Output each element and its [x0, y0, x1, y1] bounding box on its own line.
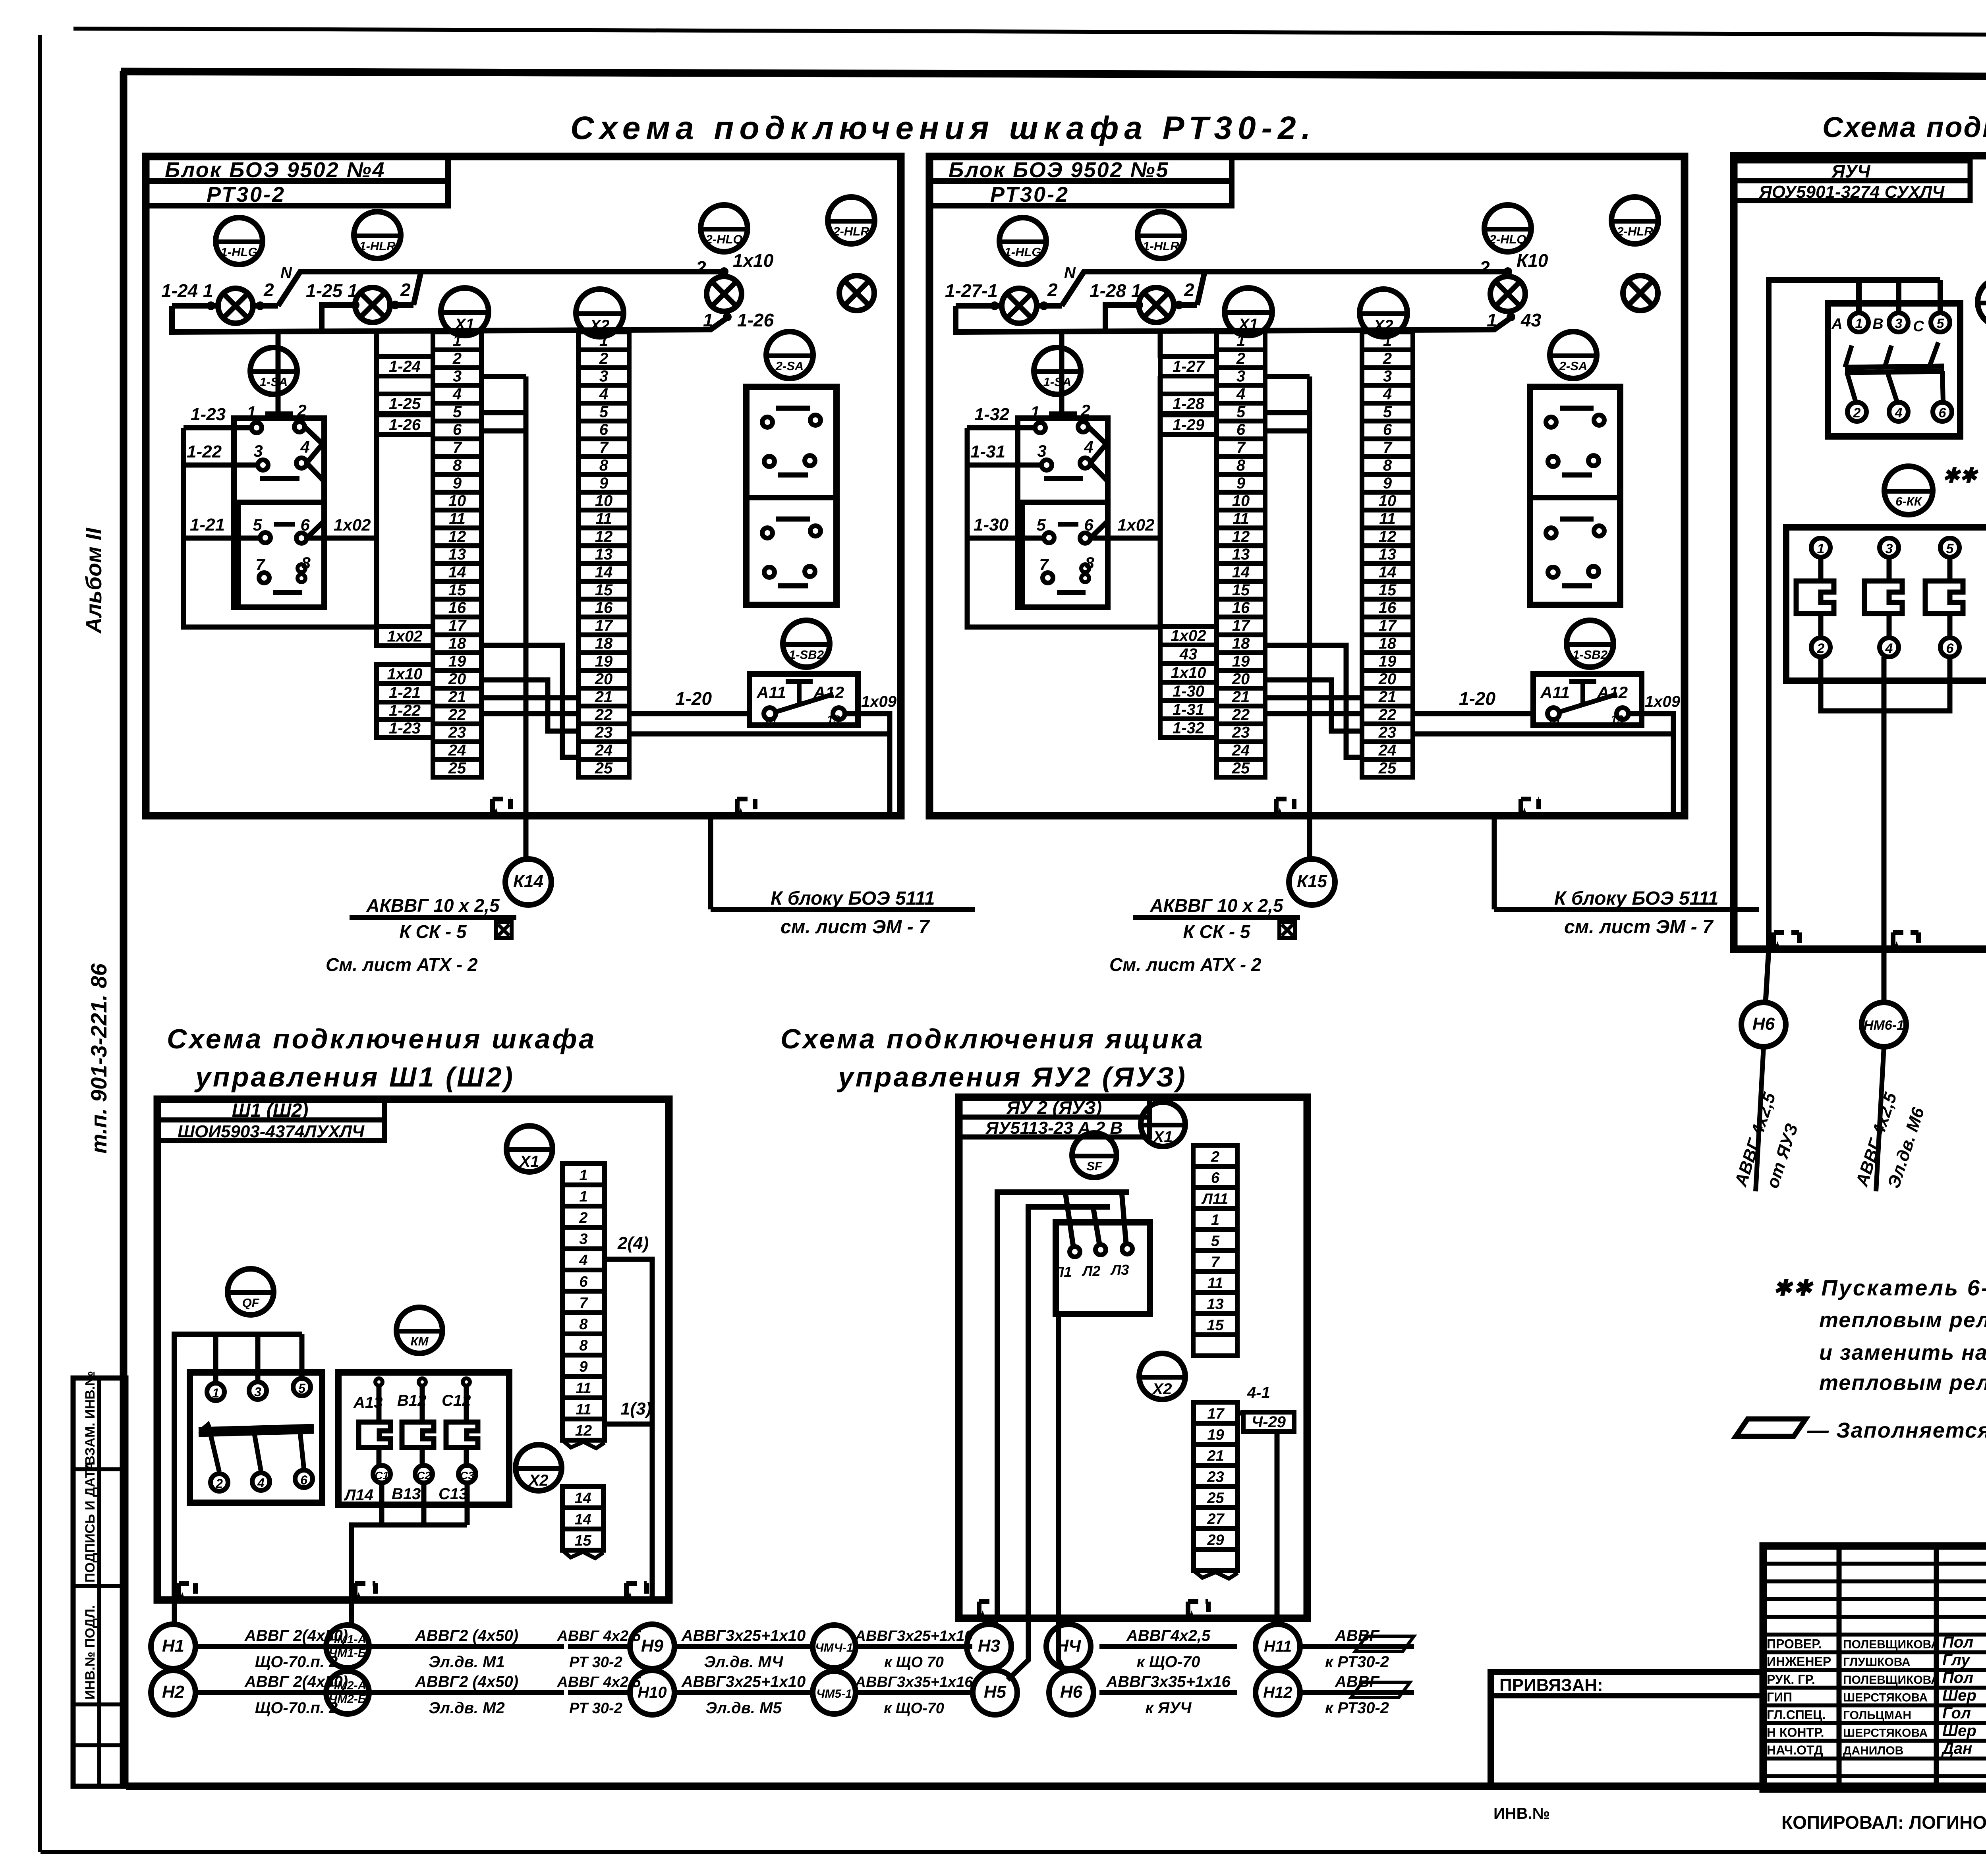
cable mark Н2 [151, 1670, 195, 1715]
contactor 6-КК box bottom loop [1821, 657, 1950, 711]
cable Н9 АВВГ3х25+1х10 [674, 1627, 813, 1671]
svg-text:✱✱: ✱✱ [1942, 464, 1979, 487]
parallelogram Н11 [1355, 1636, 1414, 1651]
svg-text:14: 14 [574, 1511, 591, 1528]
terminal strip X2 rows 1-25 (1) [578, 332, 629, 777]
svg-text:Н1: Н1 [162, 1636, 184, 1656]
svg-text:2-HLQ: 2-HLQ [1489, 232, 1526, 246]
svg-text:17: 17 [1207, 1405, 1225, 1422]
svg-text:22: 22 [1378, 706, 1397, 724]
svg-text:Н9: Н9 [641, 1636, 664, 1656]
svg-text:9: 9 [453, 475, 462, 492]
svg-text:Л14: Л14 [344, 1486, 373, 1504]
svg-text:1x02: 1x02 [1117, 515, 1154, 534]
svg-text:РТ 30-2: РТ 30-2 [569, 1700, 622, 1717]
svg-text:X1: X1 [1153, 1128, 1173, 1146]
svg-text:8: 8 [579, 1338, 588, 1354]
svg-text:6: 6 [1939, 405, 1947, 421]
wire Н5 lead [1008, 1618, 1028, 1680]
svg-text:22: 22 [448, 706, 466, 724]
svg-text:10: 10 [448, 492, 466, 510]
svg-text:22: 22 [595, 706, 613, 724]
svg-text:7: 7 [599, 439, 609, 456]
lamp circle 1-HLR (2) [1138, 212, 1184, 259]
svg-text:РТ30-2: РТ30-2 [207, 183, 286, 207]
svg-text:ГЛ.СПЕЦ.: ГЛ.СПЕЦ. [1767, 1708, 1826, 1722]
svg-text:Гол: Гол [1942, 1704, 1971, 1722]
svg-text:2: 2 [1080, 401, 1090, 420]
svg-text:2: 2 [695, 257, 706, 278]
cable РТ30-2 row1 [568, 1644, 630, 1649]
lamp circle 2-HLQ (1) [701, 205, 748, 252]
svg-text:Н12: Н12 [1263, 1684, 1292, 1701]
svg-text:18: 18 [448, 635, 466, 652]
cable Н12 АВВГ к РТ30-2 [1300, 1673, 1414, 1717]
svg-text:15: 15 [448, 581, 466, 599]
svg-text:2: 2 [263, 280, 274, 300]
svg-text:1-20: 1-20 [675, 688, 712, 709]
breaker circle 6-QF [1978, 278, 1986, 326]
svg-text:2-HLQ: 2-HLQ [705, 232, 743, 246]
svg-text:Эл.дв. М2: Эл.дв. М2 [429, 1699, 504, 1717]
svg-text:АВВГ2 (4х50): АВВГ2 (4х50) [415, 1627, 518, 1644]
svg-text:25: 25 [595, 759, 613, 777]
svg-text:19: 19 [1232, 652, 1250, 670]
svg-text:4: 4 [1885, 641, 1893, 656]
svg-text:17: 17 [1379, 617, 1397, 635]
junction dots lamp row (1) [207, 267, 732, 321]
svg-text:1-25 1: 1-25 1 [306, 280, 357, 301]
wire row23 long (2) [1413, 734, 1673, 816]
svg-text:Шер: Шер [1942, 1722, 1976, 1740]
phase mark (2) [1279, 922, 1295, 938]
svg-text:25: 25 [1232, 759, 1250, 777]
svg-text:к ЩО-70: к ЩО-70 [884, 1700, 944, 1717]
svg-text:15: 15 [595, 581, 613, 599]
svg-text:12: 12 [1379, 528, 1397, 545]
cable entry left (1) [493, 799, 510, 816]
svg-text:Н2: Н2 [162, 1682, 185, 1702]
connector circle X2 (ЯУ2) [1139, 1353, 1185, 1399]
label ЧМ2-А ЧМ2-Б [329, 1679, 367, 1706]
terminal strip X1 (Ш1) [562, 1164, 605, 1448]
wire-name box 1x02 low (1) [377, 627, 433, 646]
svg-text:Н5: Н5 [984, 1682, 1007, 1702]
svg-text:2-HLR: 2-HLR [1616, 224, 1653, 238]
svg-text:Н10: Н10 [638, 1684, 667, 1701]
svg-text:14: 14 [595, 564, 613, 581]
wire to БОЭ 5111 (1) [708, 816, 713, 909]
svg-text:19: 19 [1207, 1426, 1224, 1443]
svg-text:11: 11 [595, 510, 612, 527]
cable text АВВГ 4х2,5 Эл.дв.М6 [1852, 1090, 1928, 1191]
svg-text:НМ6-1: НМ6-1 [1864, 1018, 1904, 1033]
cable mark Н10 [630, 1670, 674, 1715]
svg-text:23: 23 [595, 724, 613, 741]
wire SA zigzag 4-6 (1) [307, 463, 324, 538]
cable entry ЯУЧ НМ6-1 [1893, 932, 1918, 949]
svg-text:13: 13 [1379, 546, 1397, 563]
svg-text:1-SB2: 1-SB2 [789, 648, 824, 662]
1-SA contacts (1) [247, 401, 311, 593]
cable mark Н1 [151, 1624, 195, 1669]
svg-text:1x09: 1x09 [1645, 693, 1681, 710]
svg-text:1-21: 1-21 [190, 515, 225, 535]
svg-text:1-22: 1-22 [187, 442, 222, 461]
selector circle 2-SA (2) [1550, 332, 1597, 378]
svg-text:2: 2 [579, 1210, 587, 1226]
svg-text:1-25: 1-25 [389, 395, 421, 413]
svg-text:6: 6 [1383, 421, 1392, 438]
wire riser to strip labels (2) [1158, 332, 1163, 358]
wire X1 row22 crossing (2) [1265, 711, 1362, 716]
svg-text:16: 16 [1232, 599, 1250, 617]
svg-text:22: 22 [1232, 706, 1250, 724]
svg-text:8: 8 [1383, 457, 1392, 474]
svg-text:6: 6 [1084, 515, 1093, 534]
wire 1-30 (2) [967, 536, 1044, 541]
svg-text:С: С [1913, 318, 1924, 335]
svg-text:Шер: Шер [1942, 1687, 1976, 1704]
svg-text:10: 10 [1232, 492, 1250, 510]
wire-name box 1-22 low (1) [377, 702, 433, 720]
svg-text:14: 14 [1547, 715, 1560, 728]
svg-text:2: 2 [452, 350, 462, 367]
wire-name box 1-25 (1) [377, 394, 433, 413]
wire X1 row3 to vertical (1) [481, 374, 526, 379]
svg-text:23: 23 [1232, 724, 1250, 741]
svg-text:1-26: 1-26 [389, 416, 421, 434]
svg-text:1: 1 [212, 1386, 219, 1400]
wire 1-21 (1) [184, 536, 260, 541]
svg-text:1-24: 1-24 [389, 358, 421, 375]
svg-text:ШЕРСТЯКОВА: ШЕРСТЯКОВА [1843, 1691, 1928, 1704]
svg-text:23: 23 [1378, 724, 1397, 741]
svg-text:к ЯУЧ: к ЯУЧ [1146, 1699, 1192, 1717]
margin table [73, 1378, 126, 1786]
svg-text:20: 20 [448, 670, 466, 688]
wire QF feeder drops [1859, 280, 1940, 314]
cable mark Н6 (row) [1049, 1670, 1093, 1715]
cable entry ЯУЧ H6 [1774, 932, 1799, 949]
svg-text:2: 2 [400, 280, 411, 300]
svg-text:43: 43 [1179, 646, 1198, 663]
svg-text:6: 6 [300, 515, 310, 534]
svg-text:— Заполняется при привязке: — Заполняется при привязке проекта. [1807, 1419, 1986, 1442]
svg-text:тепловым реле РТЛ 102104 демон: тепловым реле РТЛ 102104 демонтировать [1819, 1308, 1986, 1332]
svg-text:к ЩО-70: к ЩО-70 [1137, 1653, 1200, 1671]
svg-text:ЧМ5-1: ЧМ5-1 [816, 1687, 852, 1700]
svg-text:управления Ш1 (Ш2): управления Ш1 (Ш2) [194, 1062, 515, 1092]
title block left grid [1763, 1564, 1986, 1776]
cable ЧМ1 АВВГ2(4х50) [369, 1627, 564, 1671]
svg-text:1: 1 [1487, 310, 1497, 330]
wire SF bus inner (ЯУ2) [1028, 1207, 1110, 1618]
wire НЧ lead [1059, 1618, 1062, 1625]
cable mark Н11 [1256, 1624, 1300, 1669]
label N (2) [1047, 264, 1076, 300]
svg-text:3: 3 [1886, 541, 1893, 556]
wire lamp2 left lead (1) [322, 305, 355, 332]
button circle 1-SB2 (1) [783, 620, 830, 667]
svg-text:18: 18 [1232, 635, 1250, 652]
svg-text:8: 8 [579, 1316, 588, 1333]
wire row23 long (1) [629, 734, 890, 816]
svg-text:23: 23 [448, 724, 466, 741]
svg-text:1-HLG: 1-HLG [1005, 245, 1041, 259]
lamp HL3 (1) [707, 276, 742, 311]
cable entry left (2) [1276, 799, 1294, 816]
selector 2-SA box (2) [1530, 387, 1620, 605]
svg-text:2(4): 2(4) [617, 1233, 649, 1253]
contactor circle 6-КК [1884, 466, 1933, 515]
wire 1x09 (2) [1629, 714, 1673, 734]
svg-text:X2: X2 [528, 1472, 549, 1489]
wire-name box 1-32 low (2) [1160, 719, 1217, 737]
cable mark К15 (2) [1289, 859, 1335, 905]
svg-text:С12: С12 [442, 1392, 471, 1409]
svg-text:1-HLR: 1-HLR [1143, 239, 1179, 253]
wire lamp1 left lead (2) [956, 303, 1002, 309]
svg-text:ВЗАМ. ИНВ.№: ВЗАМ. ИНВ.№ [83, 1371, 98, 1465]
title block roles [1767, 1634, 1976, 1758]
svg-text:1: 1 [1855, 316, 1863, 331]
svg-text:15: 15 [1207, 1317, 1224, 1334]
svg-text:ПОДПИСЬ И ДАТА: ПОДПИСЬ И ДАТА [83, 1461, 98, 1583]
breaker SF box (ЯУ2) [1053, 1222, 1150, 1314]
svg-text:4-1: 4-1 [1247, 1384, 1270, 1401]
cable ЧМ2 АВВГ2(4х50) [369, 1673, 564, 1717]
svg-text:29: 29 [1207, 1532, 1224, 1548]
svg-text:12: 12 [1232, 528, 1250, 545]
svg-text:Схема подключения ящика: Схема подключения ящика [780, 1023, 1205, 1054]
svg-text:1-20: 1-20 [1459, 688, 1495, 709]
contactor КМ box (Ш1) [338, 1372, 509, 1505]
svg-text:SF: SF [1086, 1159, 1103, 1173]
svg-text:4: 4 [257, 1476, 265, 1490]
svg-text:Пол: Пол [1942, 1669, 1973, 1687]
contactor 6-КК box [1786, 527, 1986, 681]
button 1-SB2 box (2) [1533, 674, 1642, 728]
svg-text:Дан: Дан [1941, 1740, 1972, 1757]
svg-text:X1: X1 [519, 1153, 539, 1170]
wire-name box 1x10 low (1) [377, 664, 433, 683]
svg-text:ИНЖЕНЕР: ИНЖЕНЕР [1767, 1654, 1831, 1669]
svg-text:19: 19 [448, 652, 466, 670]
button circle 1-SB2 (2) [1567, 620, 1613, 667]
svg-text:20: 20 [1232, 670, 1250, 688]
selector 2-SA box (1) [746, 387, 837, 605]
svg-text:АВВГ3х35+1х16: АВВГ3х35+1х16 [1106, 1673, 1231, 1691]
svg-text:3: 3 [453, 368, 462, 385]
svg-text:Н6: Н6 [1752, 1014, 1775, 1034]
svg-text:А11: А11 [1540, 683, 1570, 702]
wire ЧМ1 lead [349, 1600, 354, 1625]
svg-text:1-HLG: 1-HLG [221, 245, 258, 259]
wire X1 row21 crossing (1) [481, 695, 578, 701]
svg-text:20: 20 [1378, 670, 1397, 688]
connector circle X2 (2) [1360, 289, 1407, 337]
svg-text:1: 1 [1030, 403, 1039, 421]
wire lamp2 left lead (2) [1105, 305, 1139, 332]
wire-name box 1-29 (2) [1160, 415, 1217, 434]
svg-text:См. лист АТХ - 2: См. лист АТХ - 2 [326, 954, 478, 975]
contactor 6-КК box output wire [1882, 657, 1887, 949]
cable РТ30-2 row2 [568, 1690, 630, 1695]
svg-text:1: 1 [453, 332, 462, 349]
cable ЧМ5-1 к ЩО-70 [855, 1674, 974, 1717]
svg-text:14: 14 [574, 1490, 591, 1507]
svg-text:Схема подключения шкафа: Схема подключения шкафа [167, 1023, 596, 1054]
cable Н11 АВВГ к РТ30-2 [1300, 1627, 1414, 1671]
svg-text:ГОЛЬЦМАН: ГОЛЬЦМАН [1843, 1709, 1911, 1722]
svg-text:N: N [1064, 264, 1076, 282]
svg-text:К СК - 5: К СК - 5 [1183, 921, 1250, 942]
svg-text:8: 8 [599, 457, 609, 474]
title block outline [1763, 1546, 1986, 1789]
contactor circle КМ (Ш1) [396, 1307, 442, 1353]
wire SA zigzag 2-4 (2) [1088, 427, 1106, 463]
wire long vertical to K14 (1) [524, 376, 529, 816]
cable mark ЧМ1 [326, 1625, 369, 1668]
wire lamp bottom bus (1) [172, 306, 727, 332]
cable ЧМЧ-1 к ЩО 70 [855, 1628, 973, 1671]
wire X1 row20 (1) [481, 680, 578, 731]
cable Н6 АВВГ3х35+1х16 к ЯУЧ [1099, 1673, 1237, 1717]
lamp HL3 (2) [1490, 276, 1525, 311]
svg-text:3: 3 [599, 368, 608, 385]
connector circle X1 (Ш1) [506, 1126, 553, 1172]
wire H6 drop [1766, 949, 1769, 1002]
svg-text:ГИП: ГИП [1767, 1690, 1792, 1704]
cable Н10 АВВГ3х25+1х10 [674, 1673, 813, 1717]
svg-text:Н3: Н3 [978, 1636, 1000, 1656]
svg-text:1x02: 1x02 [387, 627, 423, 645]
svg-text:управления ЯУ2 (ЯУЗ): управления ЯУ2 (ЯУЗ) [837, 1062, 1187, 1092]
svg-text:5: 5 [1383, 403, 1392, 421]
cable mark Н6 [1741, 1002, 1786, 1047]
svg-text:11: 11 [576, 1380, 591, 1397]
cable entry ЯУ2 mid [1188, 1602, 1208, 1618]
block Блок БОЭ 9502 №4 outline [146, 156, 901, 816]
wire 2(4) from X1 row4 (Ш1) [605, 1259, 652, 1600]
terminal strip X1 rows 1-25 (2) [1217, 332, 1265, 777]
svg-text:21: 21 [595, 688, 613, 706]
svg-text:13: 13 [827, 713, 840, 726]
wire lamp1 right lead (2) [1037, 303, 1062, 309]
svg-text:3: 3 [1037, 442, 1046, 460]
wire 1-31 (2) [967, 463, 1041, 468]
svg-text:В: В [1872, 316, 1883, 332]
wire X1 row5 (2) [1265, 410, 1310, 415]
svg-text:1-27: 1-27 [1173, 358, 1205, 375]
svg-text:ДАНИЛОВ: ДАНИЛОВ [1843, 1744, 1903, 1757]
svg-text:2-HLR: 2-HLR [833, 224, 869, 238]
svg-text:16: 16 [595, 599, 613, 617]
breaker circle QF (Ш1) [228, 1269, 274, 1315]
svg-text:18: 18 [595, 635, 613, 652]
svg-text:К14: К14 [513, 872, 543, 891]
svg-text:1x10: 1x10 [1171, 664, 1206, 682]
svg-text:С2: С2 [417, 1469, 431, 1482]
svg-text:3: 3 [253, 442, 263, 460]
svg-text:2: 2 [1211, 1148, 1219, 1165]
svg-text:2-SA: 2-SA [775, 359, 804, 373]
cable НЧ АВВГ4х2,5 к ЩО-70 [1099, 1627, 1237, 1671]
cable text АВВГ 4х2,5 от ЯУЗ [1731, 1090, 1802, 1191]
svg-text:1-32: 1-32 [1173, 720, 1204, 737]
svg-text:ПРОВЕР.: ПРОВЕР. [1767, 1637, 1822, 1651]
svg-text:14: 14 [1379, 564, 1397, 581]
wire НМ6-1 below [1876, 1047, 1884, 1191]
cable mark НМ6-1 [1862, 1002, 1906, 1047]
svg-text:25: 25 [1207, 1490, 1224, 1506]
lamp circle 1-HLR (1) [354, 212, 401, 259]
svg-text:ИНВ.№ ПОДЛ.: ИНВ.№ ПОДЛ. [83, 1605, 98, 1700]
svg-text:11: 11 [1379, 510, 1396, 527]
svg-text:1-SA: 1-SA [1043, 375, 1072, 389]
breaker 6-QF box [1828, 303, 1960, 436]
cable entry right (2) [1521, 799, 1539, 816]
svg-text:14: 14 [763, 715, 777, 728]
svg-text:см. лист ЭМ - 7: см. лист ЭМ - 7 [1564, 917, 1714, 938]
svg-text:АВВГ3х25+1х10: АВВГ3х25+1х10 [681, 1627, 806, 1644]
svg-text:тепловым реле РТЛ 100804.: тепловым реле РТЛ 100804. [1819, 1371, 1986, 1395]
wire-name box 1-23 low (1) [377, 720, 433, 737]
svg-text:АВВГ 2(4х50): АВВГ 2(4х50) [244, 1673, 348, 1691]
lamp HL2 (1) [355, 288, 390, 322]
svg-text:ЯУ 2 (ЯУЗ): ЯУ 2 (ЯУЗ) [1006, 1097, 1102, 1118]
svg-text:8: 8 [453, 457, 462, 474]
svg-text:ЯОУ5901-3274 СУХЛЧ: ЯОУ5901-3274 СУХЛЧ [1759, 182, 1945, 202]
lamp HL4 (2) [1623, 276, 1658, 311]
breaker circle SF (ЯУ2) [1072, 1133, 1117, 1177]
cable mark ЧМ2 [326, 1671, 369, 1714]
svg-text:23: 23 [1207, 1469, 1224, 1485]
svg-text:1-28: 1-28 [1173, 395, 1205, 413]
terminal strip X1 rows 1-25 (1) [433, 332, 481, 777]
svg-text:1-30: 1-30 [1173, 683, 1204, 700]
svg-text:1: 1 [1383, 332, 1392, 349]
svg-text:15: 15 [1379, 581, 1397, 599]
svg-text:5: 5 [298, 1381, 306, 1395]
wire 1(3) from X1 row12 (Ш1) [605, 1422, 652, 1427]
svg-text:9: 9 [1383, 475, 1392, 492]
callout К блоку БОЭ 5111 (2) [1494, 907, 1759, 912]
wire QF drops (Ш1) [216, 1334, 302, 1384]
svg-text:ЩО-70.п. 2: ЩО-70.п. 2 [255, 1699, 338, 1717]
svg-text:7: 7 [1039, 555, 1049, 574]
svg-text:А: А [1831, 316, 1842, 332]
wire-name box 1-24 (1) [377, 357, 433, 376]
block Блок БОЭ 9502 №4 label box [146, 156, 448, 207]
svg-text:Л1: Л1 [1053, 1264, 1072, 1280]
svg-text:1: 1 [599, 332, 608, 349]
svg-text:5: 5 [1211, 1233, 1220, 1249]
svg-text:14: 14 [448, 564, 466, 581]
cable mark Н5 [973, 1670, 1017, 1715]
wire to БОЭ 5111 (2) [1492, 816, 1497, 909]
cable АКВВГ 10x2,5 К СК-5 (1) [350, 895, 516, 942]
svg-text:к ЩО 70: к ЩО 70 [884, 1654, 944, 1671]
svg-text:А11: А11 [756, 683, 786, 702]
wire X1 row22 crossing (1) [481, 711, 578, 716]
svg-text:1-31: 1-31 [970, 442, 1005, 461]
cable mark ЧМ5-1 [813, 1671, 856, 1714]
wire-name box Ч-29 (ЯУ2) [1243, 1412, 1294, 1432]
wire lamp bottom bus (2) [956, 306, 1511, 332]
svg-text:21: 21 [1207, 1448, 1224, 1464]
